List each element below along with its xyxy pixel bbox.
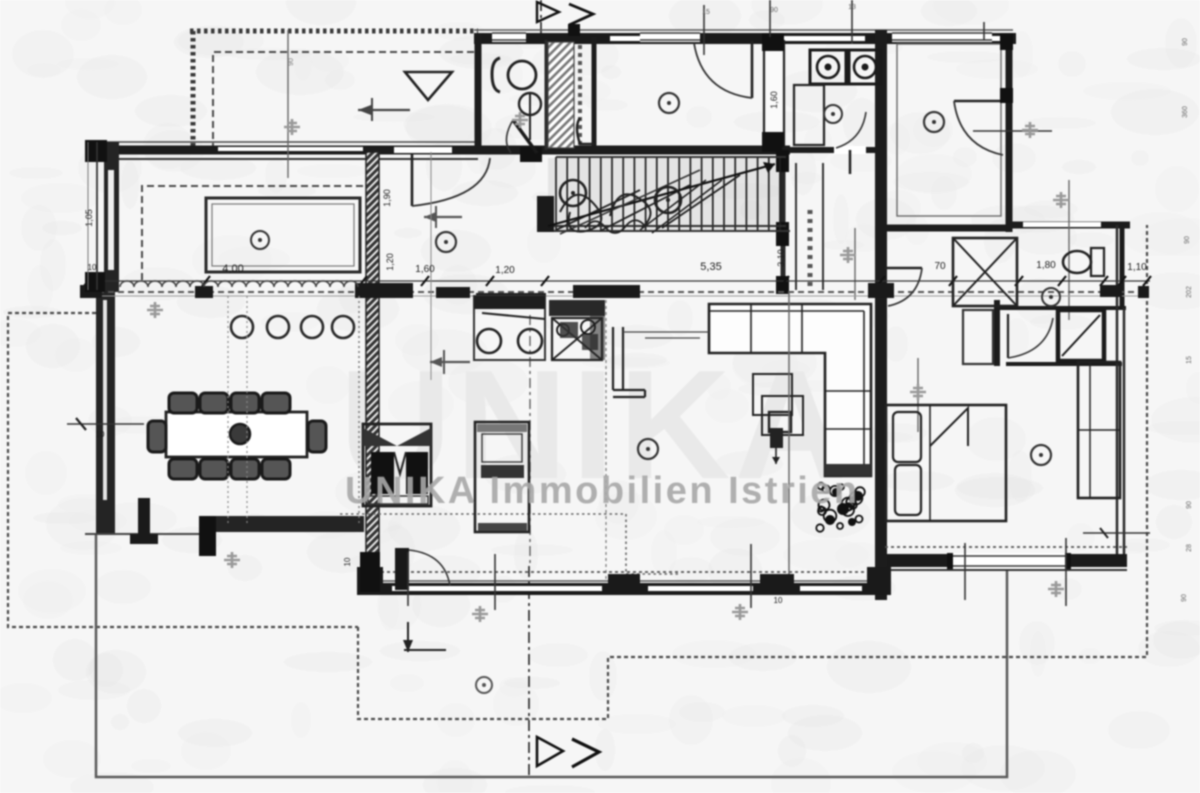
dim vline mid b — [917, 358, 919, 432]
shower square dark — [1058, 310, 1104, 361]
plant scribble — [830, 486, 840, 496]
kitchen sink circles — [477, 329, 501, 353]
door living bottom — [395, 548, 409, 590]
bath2 door leaf — [849, 150, 852, 174]
bedroom3 window — [947, 553, 1071, 569]
bath2 circle symbol — [824, 105, 842, 123]
svg-text:1,10: 1,10 — [1127, 262, 1147, 273]
stairs landing dark — [537, 196, 554, 232]
svg-text:28: 28 — [1186, 544, 1193, 552]
terrace arrow — [358, 109, 410, 111]
dining dotted ceiling lines — [228, 296, 247, 524]
svg-text:90: 90 — [1182, 38, 1189, 46]
pier stairs right c — [776, 276, 789, 294]
toilet WC1 — [492, 58, 500, 92]
wall bedroom3 right — [1117, 225, 1124, 557]
section line bottom segment — [528, 566, 530, 778]
wall shower-zone bottom — [1006, 362, 1122, 366]
hall circle symbol — [436, 232, 456, 252]
wall living bottom — [360, 583, 888, 595]
shaft flue dashes — [578, 45, 582, 148]
svg-text:90: 90 — [1184, 236, 1191, 244]
stairs up arrow — [548, 164, 775, 226]
stairs treads — [555, 157, 557, 230]
section arrow bottom 1 — [537, 737, 563, 766]
bed — [886, 405, 1006, 521]
kitchen appliance block — [549, 300, 605, 316]
wall top strip upper — [474, 29, 1013, 31]
section arrow bottom 2 — [572, 739, 599, 767]
wall bath3 bottom — [1000, 306, 1126, 310]
bedroom1 door — [751, 41, 754, 98]
bath2 shower tray — [794, 85, 824, 145]
bath3 shower X-box — [953, 238, 1017, 306]
door WC1 — [513, 120, 537, 153]
living sill dotted — [357, 571, 886, 573]
dim verticals bottom wall — [407, 552, 409, 606]
wall top-left long horizontal — [97, 146, 790, 155]
svg-text:10: 10 — [343, 557, 352, 566]
window bedroom1 top wall — [640, 31, 700, 42]
wall shaft right — [592, 37, 597, 150]
svg-text:90: 90 — [770, 7, 778, 14]
svg-text:15: 15 — [1186, 356, 1193, 364]
svg-text:15: 15 — [702, 9, 710, 16]
svg-text:90: 90 — [288, 58, 295, 66]
svg-text:1,20: 1,20 — [495, 265, 515, 276]
bedroom2 circle symbol — [924, 112, 944, 132]
hatched shaft wall — [548, 42, 574, 148]
svg-text:1,60: 1,60 — [415, 264, 435, 275]
bedroom3 sill dotted — [885, 546, 1127, 548]
pool circle symbol — [251, 231, 269, 249]
coffee table 2 — [762, 396, 803, 435]
living dotted opening line — [340, 514, 680, 574]
coffee table inner — [769, 412, 791, 432]
wall dining left — [96, 292, 115, 533]
wall bath2-bedroom2 divider — [875, 30, 887, 308]
wall bath2 bottom — [782, 147, 881, 153]
svg-text:360: 360 — [1182, 106, 1189, 118]
pier bedroom1-bath top — [762, 33, 784, 51]
lower terrace solid boundary — [96, 533, 1007, 777]
svg-text:4,00: 4,00 — [222, 263, 243, 275]
bedroom3 circle symbol — [1031, 445, 1051, 465]
wall top-right room bottom — [1009, 222, 1130, 229]
hall dim vline — [430, 152, 432, 380]
gray dimension crosses — [284, 119, 300, 135]
window piers — [80, 285, 102, 298]
svg-text:90: 90 — [1181, 594, 1188, 602]
svg-text:5,35: 5,35 — [700, 261, 721, 273]
wall right upper vertical — [1120, 225, 1125, 308]
left dim vline — [96, 142, 98, 290]
bottom arrow marker — [407, 622, 409, 652]
tv ledge line — [623, 332, 709, 338]
section arrow top 2 — [569, 4, 593, 25]
terrace dim vline — [287, 30, 289, 178]
cabinet right — [963, 310, 993, 364]
wall shower-zone left — [994, 300, 1000, 366]
dim vline right — [1068, 180, 1070, 320]
pier stairs right a — [776, 150, 789, 172]
left terrace dashed outline — [8, 313, 358, 627]
living bottom piers — [357, 567, 383, 595]
bedroom3 dim stub — [1083, 532, 1150, 534]
stairs extra diagonals — [556, 175, 740, 231]
bedroom1 circle symbol — [659, 93, 679, 113]
top tick block — [568, 24, 580, 36]
bed fold corner — [930, 408, 968, 446]
stairs scribble arcs — [560, 195, 601, 232]
dim vline mid a — [854, 228, 856, 300]
svg-text:70: 70 — [934, 261, 946, 272]
section line mid segment — [529, 315, 531, 566]
bottom circle symbol — [476, 677, 492, 693]
svg-text:UNIKA Immobilien Istrien: UNIKA Immobilien Istrien — [345, 470, 860, 512]
window top wall WC — [492, 31, 526, 42]
wall kitchen left hatched — [366, 152, 379, 588]
bath3 circle symbol — [1042, 288, 1060, 306]
corridor closet — [796, 163, 823, 290]
dim verticals top wall — [703, 5, 705, 55]
upper terrace inner dashed outline — [213, 52, 474, 148]
svg-text:10: 10 — [88, 263, 97, 272]
dining step line — [85, 533, 199, 535]
pier stairs right b — [776, 222, 789, 246]
kitchen front solid bar — [476, 293, 546, 306]
bedroom2 door piers — [1000, 88, 1013, 103]
svg-text:13: 13 — [848, 4, 856, 11]
wall stairs right — [781, 150, 786, 292]
living circle symbol — [638, 439, 658, 459]
pool scallop hatch — [120, 281, 358, 287]
dining pendant circles — [231, 316, 253, 338]
svg-text:1,60: 1,60 — [769, 91, 779, 109]
svg-text:1,80: 1,80 — [1036, 260, 1056, 271]
hall arrow — [424, 216, 462, 218]
svg-text:1,05: 1,05 — [84, 209, 94, 227]
pool terrace dashed outline — [142, 186, 363, 283]
pool — [206, 198, 360, 272]
bed pillow 1 — [893, 412, 921, 462]
bath2 sink right — [849, 50, 881, 84]
bottom terrace dashed outline — [358, 225, 1147, 719]
wall dining bottom — [199, 516, 364, 532]
stairs borders — [545, 157, 790, 231]
coffee table 1 — [753, 374, 792, 415]
svg-text:90: 90 — [1186, 501, 1193, 509]
left wall end blocks — [85, 140, 107, 162]
wall top strip left — [475, 34, 482, 152]
glass front dashed line — [88, 291, 1147, 293]
dining level mark — [67, 423, 144, 425]
floor lamp blob — [770, 428, 783, 448]
door dining bottom — [138, 498, 150, 534]
wall bedroom3 bottom — [880, 554, 1127, 567]
bath2 sink left — [810, 50, 846, 84]
upper terrace hatched top edge — [190, 29, 478, 34]
wall bedroom1-bath divider — [763, 40, 785, 148]
wall WC right — [545, 40, 548, 150]
stairs circle mark 1 — [560, 180, 586, 206]
svg-text:3,10: 3,10 — [776, 249, 786, 267]
shaft fixture — [577, 118, 594, 144]
bath2 door arc — [836, 112, 866, 148]
bath3 toilet — [1063, 251, 1091, 273]
kitchen arrow — [430, 361, 470, 363]
sink WC1 — [519, 93, 541, 115]
stairs top-left pier — [520, 147, 542, 162]
hall door arc — [411, 154, 414, 206]
wardrobe — [1078, 362, 1120, 498]
tv bench — [613, 327, 645, 397]
pier bedroom1-bath bottom — [762, 132, 784, 152]
section arrow top 1 — [537, 2, 559, 22]
kitchen counter — [474, 296, 545, 360]
main dimension line — [85, 280, 1150, 282]
bedroom2 inner inset — [897, 44, 1001, 216]
bath3 door — [885, 267, 922, 269]
bedroom2 dim line — [973, 130, 1052, 132]
svg-text:202: 202 — [1186, 286, 1193, 298]
wall top strip right — [1006, 34, 1013, 232]
fridge unit — [363, 424, 431, 506]
dining table and chairs — [166, 412, 307, 457]
stairs second diagonal — [560, 170, 700, 234]
kitchen island — [475, 422, 529, 532]
svg-text:1,20: 1,20 — [385, 253, 395, 271]
terrace triangle symbol — [405, 72, 452, 100]
wall living-bedroom3 divider — [875, 288, 887, 600]
paper noise — [749, 10, 785, 30]
wall upper-left vertical — [104, 142, 119, 292]
left wall core — [108, 170, 114, 270]
upper terrace hatched left edge — [191, 31, 196, 148]
svg-text:10: 10 — [96, 430, 105, 439]
door shower zone — [1007, 314, 1009, 358]
bedroom2 door — [954, 100, 1005, 103]
wall bath3 top — [885, 225, 1009, 232]
sofa L-shape — [709, 304, 871, 476]
section line top segment — [540, 0, 542, 42]
dining bottom pier — [199, 516, 216, 556]
stairs circle mark 2 — [655, 187, 681, 213]
svg-text:1,90: 1,90 — [382, 189, 392, 207]
stair floor-opening edge — [788, 292, 790, 585]
window top wall bath2 — [892, 31, 992, 42]
svg-text:10: 10 — [774, 596, 783, 605]
sofa end table — [825, 464, 871, 476]
stairs shade — [548, 158, 784, 230]
gallery dotted edge — [605, 300, 607, 580]
bed pillow 2 — [895, 465, 921, 515]
